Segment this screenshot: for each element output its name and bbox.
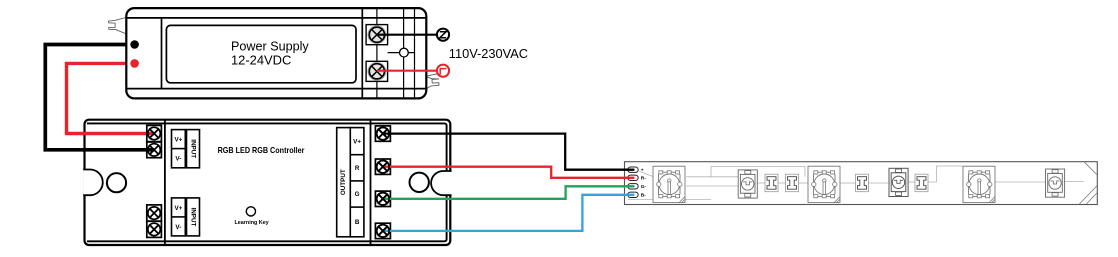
controller left notch — [83, 170, 103, 196]
strip pad + — [628, 167, 639, 172]
screw AC top — [368, 26, 386, 44]
DC terminal dot black — [130, 40, 139, 49]
svg-text:INPUT: INPUT — [190, 139, 197, 158]
svg-text:B: B — [355, 219, 360, 226]
component C3 — [1046, 169, 1065, 197]
resistor R1 — [765, 174, 778, 192]
learning key button — [246, 207, 255, 216]
controller right divider — [370, 120, 372, 245]
input V+/V- cells bottom — [172, 198, 200, 236]
wire AC line red — [377, 70, 437, 72]
svg-text:110V-230VAC: 110V-230VAC — [449, 46, 528, 61]
strip outline — [625, 162, 1098, 205]
strip end diagonal cuts — [1080, 162, 1097, 204]
LED module D3 — [963, 166, 995, 202]
svg-text:12-24VDC: 12-24VDC — [231, 53, 291, 67]
PSU right verticals — [403, 8, 405, 98]
svg-text:+: + — [641, 169, 644, 174]
resistor R2 — [786, 174, 799, 192]
component C2 — [889, 168, 908, 196]
strip pad B- — [628, 192, 639, 197]
resistor R3 — [856, 174, 869, 192]
wire AC neutral — [377, 34, 437, 36]
svg-text:R: R — [355, 165, 360, 172]
PSU right divider — [361, 8, 363, 98]
PSU mid horizontal with hole — [388, 52, 415, 54]
controller inner outline — [87, 123, 447, 241]
AC terminal box bottom — [366, 61, 388, 81]
screw AC bottom — [368, 62, 386, 80]
LED module D2 — [808, 166, 840, 202]
OUTPUT label box — [337, 128, 351, 237]
output cells V+ R G B — [350, 128, 364, 237]
strip pad G- — [628, 184, 639, 189]
LED module D1 — [653, 166, 685, 202]
controller U1 body — [83, 120, 451, 245]
svg-text:OUTPUT: OUTPUT — [340, 169, 347, 195]
svg-text:RGB LED RGB Controller: RGB LED RGB Controller — [218, 145, 306, 155]
resistor R4 — [915, 174, 928, 192]
input V+/V- cells top — [172, 130, 200, 168]
controller right mounting hole — [410, 173, 429, 192]
PSU inner top line — [126, 17, 426, 19]
svg-text:V+: V+ — [353, 138, 361, 145]
PSU outer case — [126, 8, 426, 98]
wire G green to strip — [383, 186, 634, 199]
strain relief squiggle left — [108, 18, 126, 34]
controller left divider — [164, 120, 166, 245]
wire black DC end segment — [83, 148, 154, 152]
strip traces — [628, 166, 1084, 200]
strip pad R- — [628, 175, 639, 180]
PSU label plate — [166, 25, 356, 82]
svg-text:V-: V- — [175, 156, 181, 163]
power supply U-PSU body — [108, 8, 439, 98]
svg-text:V-: V- — [175, 224, 181, 231]
wire R red to strip — [383, 167, 634, 178]
wire black DC from PSU to controller input — [45, 45, 154, 150]
wire red DC end segment — [83, 132, 154, 135]
output terminal screws — [375, 126, 390, 239]
svg-text:Power Supply: Power Supply — [231, 40, 309, 54]
wire V+ black to strip — [383, 134, 634, 170]
AC N symbol — [437, 29, 449, 41]
svg-text:V+: V+ — [174, 205, 182, 212]
output screws redraw over wires — [377, 127, 389, 237]
PSU inner bottom line — [126, 88, 426, 90]
controller outer case — [85, 120, 451, 245]
input terminal screws bottom pair — [147, 205, 162, 238]
LED strip body — [625, 162, 1098, 205]
wire red DC from PSU to controller input — [67, 63, 155, 133]
wire B blue to strip — [383, 195, 634, 231]
svg-text:R-: R- — [641, 176, 646, 182]
svg-text:G: G — [355, 191, 360, 198]
strain relief squiggle right — [421, 73, 439, 97]
svg-text:Learning Key: Learning Key — [235, 220, 269, 226]
input terminal screws top pair — [147, 125, 162, 157]
svg-text:B-: B- — [641, 193, 646, 199]
DC terminal dot red — [130, 59, 139, 68]
PSU left divider — [161, 18, 163, 89]
controller left mounting hole — [107, 173, 126, 192]
svg-text:INPUT: INPUT — [190, 207, 197, 226]
AC L symbol — [437, 65, 449, 77]
component C1 — [738, 170, 757, 198]
AC terminal box top — [366, 25, 388, 45]
svg-text:V+: V+ — [174, 137, 182, 144]
PSU ticks — [376, 8, 378, 25]
controller right notch — [431, 171, 451, 195]
svg-text:G-: G- — [641, 184, 647, 190]
